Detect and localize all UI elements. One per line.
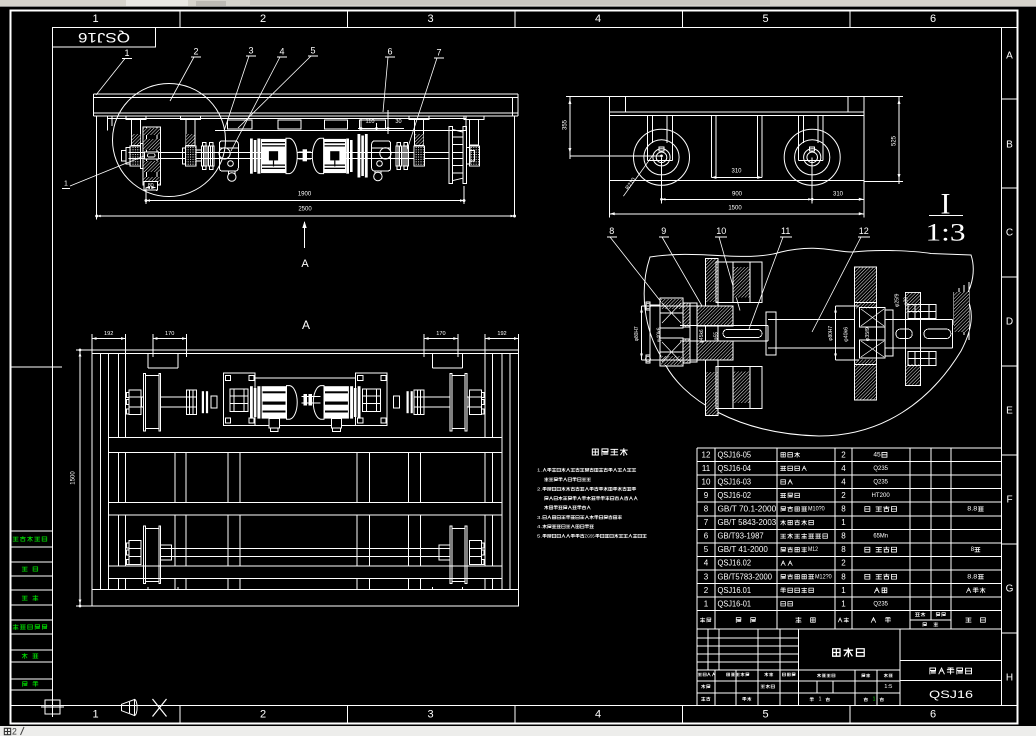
title block center part name [833, 648, 865, 656]
detail left end cap [650, 305, 660, 360]
plan view wheel slots bottom [147, 587, 149, 590]
detail gear disc [905, 292, 920, 385]
svg-text:4: 4 [595, 709, 601, 721]
svg-text:GB/T 41-2000: GB/T 41-2000 [718, 545, 769, 554]
svg-text:6: 6 [704, 532, 709, 541]
front view pedestal hanger 1 [126, 116, 146, 120]
front view second axlebox bearing [185, 146, 196, 166]
plan view brake bars right [407, 391, 409, 413]
svg-text:8.8: 8.8 [967, 573, 978, 580]
svg-text:8: 8 [841, 572, 846, 581]
svg-text:1:5: 1:5 [884, 684, 892, 690]
svg-text:12: 12 [702, 450, 711, 459]
detail right dim phi80H7 [835, 306, 837, 360]
svg-text:1.: 1. [537, 468, 542, 473]
front view platform right extension line [514, 116, 516, 216]
top window strip [0, 0, 1036, 7]
plan view dim 192 right [484, 334, 486, 354]
detail left shaft keyway [723, 330, 762, 338]
svg-text:φ40k6: φ40k6 [657, 327, 663, 342]
svg-text:45: 45 [873, 451, 881, 458]
svg-text:4: 4 [841, 464, 846, 473]
plan view cross band 3 [109, 565, 503, 567]
margin label miaotu [22, 567, 37, 571]
svg-text:1: 1 [841, 586, 846, 595]
end view left wheel yoke [647, 115, 649, 160]
front view left wheel keyway box [145, 152, 159, 159]
plan view coupling right [414, 390, 424, 414]
detail left rim bottom [716, 367, 762, 409]
plan view coupling left [186, 390, 196, 414]
svg-text:QSJ16.02: QSJ16.02 [718, 559, 752, 568]
detail left rim top [716, 262, 762, 303]
detail right dim phi35 [865, 327, 871, 341]
end view wheel radius leader [623, 155, 652, 196]
title block frame [696, 629, 698, 705]
end view right wheel yoke [797, 115, 799, 160]
svg-text:8: 8 [704, 505, 709, 514]
svg-text:1: 1 [841, 518, 846, 527]
svg-text:2: 2 [260, 709, 266, 721]
svg-text:φ80H7: φ80H7 [828, 326, 834, 341]
plan view dim 192 left [91, 334, 93, 350]
end view dim 525 [898, 97, 900, 185]
svg-text:GB/T5783-2000: GB/T5783-2000 [718, 572, 773, 581]
svg-text:3: 3 [427, 13, 433, 25]
svg-text:D: D [1006, 317, 1013, 328]
front view right axle end [466, 148, 470, 165]
front view motor 1 [261, 139, 286, 173]
plan view idler axle hubs [161, 545, 172, 560]
svg-text:4: 4 [595, 13, 601, 25]
plan view wheel rear-right [450, 526, 452, 583]
detail right shaft keyway 2 [924, 329, 951, 339]
detail left hub plates [697, 306, 733, 326]
svg-text:2.: 2. [537, 487, 542, 492]
plan view longitudinal members [117, 354, 119, 438]
svg-text:4: 4 [704, 559, 709, 568]
end view dim 1500 [609, 181, 611, 218]
svg-text:4: 4 [841, 477, 846, 486]
front view brake drum right [372, 141, 391, 171]
plan view axle bar front-left [161, 396, 187, 398]
margin label miaojiao [22, 596, 38, 601]
svg-text:3.: 3. [537, 515, 542, 520]
detail left hub extra blocks [683, 303, 690, 327]
svg-text:192: 192 [104, 331, 113, 337]
plan view brake bars left [202, 391, 204, 413]
detail left shaft [680, 325, 768, 327]
end view dim 310 center [711, 176, 716, 179]
end view side skirts [609, 115, 611, 180]
detail blob outline [644, 248, 973, 436]
svg-text:11: 11 [781, 226, 790, 236]
title block stage row [799, 669, 901, 671]
front view motor 2 [324, 139, 346, 173]
svg-text:2: 2 [260, 13, 266, 25]
svg-text:QSJ16-01: QSJ16-01 [718, 599, 752, 608]
detail left bearing [660, 298, 683, 328]
svg-text:7: 7 [436, 48, 441, 58]
svg-text:9: 9 [704, 491, 709, 500]
detail right bearing [860, 308, 885, 327]
svg-text:φ25f9: φ25f9 [895, 293, 901, 307]
front view coupling right [396, 146, 402, 166]
svg-text:2: 2 [704, 586, 709, 595]
plan view axle well top-right [432, 354, 434, 369]
svg-text:GB/T 70.1-2000: GB/T 70.1-2000 [718, 505, 777, 514]
detail right flange column [855, 267, 877, 400]
margin label qianzi [22, 654, 38, 659]
detail gear bolts top [908, 305, 936, 312]
svg-text:B: B [1006, 140, 1013, 151]
centering mark left-middle [11, 366, 63, 368]
svg-text:170: 170 [436, 331, 445, 337]
zone separators bottom [179, 706, 181, 724]
svg-text:QSJ16: QSJ16 [929, 689, 973, 701]
title block left grid [697, 637, 799, 639]
svg-text:8: 8 [841, 545, 846, 554]
end view right wheel [784, 129, 840, 185]
inner border left [52, 27, 54, 705]
svg-text:1500: 1500 [728, 206, 742, 212]
margin label riqi [23, 682, 38, 687]
inner border right [1001, 27, 1003, 705]
svg-text:9: 9 [661, 226, 666, 236]
svg-text:GB/T 5843-2003: GB/T 5843-2003 [718, 518, 777, 527]
svg-text:QSJ16-05: QSJ16-05 [718, 450, 752, 459]
front view brake release ring left [228, 173, 236, 181]
plan view idler axle [161, 548, 450, 550]
detail right shaft keyway 1 [896, 329, 912, 339]
svg-text:QSJ16-03: QSJ16-03 [718, 477, 752, 486]
front view pedestal hanger 3 [409, 116, 429, 120]
svg-text:QSJ16: QSJ16 [78, 30, 130, 45]
plan view wheel front-right [450, 374, 452, 431]
svg-text:Q235: Q235 [873, 465, 888, 472]
svg-text:4.: 4. [537, 524, 542, 529]
svg-text:8.8: 8.8 [967, 506, 978, 513]
plan view motor 2 [324, 386, 349, 418]
plan view bearing mount plate left [223, 373, 255, 425]
svg-text:2: 2 [841, 491, 846, 500]
detail shaft step flange [766, 312, 776, 355]
plan view top wall line [92, 353, 519, 355]
plan view cross band 2 [109, 501, 503, 503]
svg-text:4: 4 [279, 47, 284, 57]
svg-text:ZG55: ZG55 [585, 534, 595, 539]
title block sheet row [810, 698, 814, 701]
detail connecting shaft [768, 318, 855, 320]
front view dim 2500 [96, 116, 98, 220]
title block revision labels [698, 673, 706, 676]
front view axle shaft [129, 151, 449, 153]
svg-text:5: 5 [310, 46, 315, 56]
plan view outboard bearing rear-left [129, 540, 141, 564]
front view platform beam [94, 93, 519, 95]
end view dim 900 [661, 157, 663, 203]
end view beam [610, 96, 864, 98]
svg-text:5: 5 [762, 709, 768, 721]
svg-text:φ55: φ55 [714, 332, 720, 340]
svg-text:1: 1 [841, 599, 846, 608]
svg-text:φ45k6: φ45k6 [699, 329, 705, 343]
svg-text:12: 12 [859, 226, 869, 236]
front view right wheel [449, 127, 453, 184]
plan view wheel rear-left [144, 526, 146, 583]
plan view side wall lines [100, 354, 102, 590]
svg-text:QSJ16.01: QSJ16.01 [718, 586, 752, 595]
front view pedestal hanger 2 [180, 116, 200, 120]
svg-text:6: 6 [387, 47, 392, 57]
detail left assembly wheel web [706, 259, 719, 416]
svg-text:1: 1 [92, 13, 98, 25]
plan view motor 1 [262, 386, 287, 418]
svg-text:M12: M12 [808, 546, 818, 553]
title block product name [900, 660, 1002, 662]
front view brake disc stack right [346, 139, 349, 174]
svg-text:A: A [301, 258, 309, 270]
svg-text:192: 192 [497, 331, 506, 337]
detail left dim phi45k6 [699, 329, 705, 343]
zone letter separators right [1002, 98, 1018, 100]
plan view subframe rails [255, 377, 356, 379]
svg-text:11: 11 [702, 464, 711, 473]
svg-text:1900: 1900 [298, 192, 312, 198]
svg-text:355: 355 [563, 119, 569, 130]
plan view inter-motor shaft [302, 396, 321, 398]
plan view outboard bearing rear-right [469, 540, 481, 564]
margin label jieyongjian [13, 537, 47, 542]
svg-text:QSJ16-04: QSJ16-04 [718, 464, 752, 473]
svg-text:2: 2 [193, 47, 198, 57]
svg-text:GB/T93-1987: GB/T93-1987 [718, 532, 764, 541]
X mark [153, 699, 167, 717]
detail left dim phi40k6 [657, 327, 663, 342]
detail left dim phi80H7 [641, 306, 643, 360]
svg-text:2500: 2500 [298, 207, 312, 213]
front view pedestal hanger 4 [464, 116, 484, 120]
svg-text:QSJ16-02: QSJ16-02 [718, 491, 752, 500]
svg-text:8: 8 [609, 226, 614, 236]
plan view axle bar front-right [424, 396, 450, 398]
BOM header row [700, 618, 710, 622]
detail left dim phi55 [714, 332, 720, 340]
projection symbol cone [122, 700, 135, 716]
svg-text:2: 2 [12, 727, 17, 736]
svg-text:310: 310 [731, 169, 742, 175]
plan view outboard bearing front-right [469, 390, 481, 414]
margin label jiuditu [13, 625, 47, 630]
svg-text:1:3: 1:3 [926, 220, 966, 247]
svg-text:3: 3 [704, 572, 709, 581]
plan view cross band 1 [109, 437, 503, 439]
svg-text:3: 3 [248, 46, 253, 56]
plan view dim 170 right [423, 334, 425, 357]
svg-text:5.: 5. [537, 534, 542, 539]
svg-text:8: 8 [971, 546, 975, 553]
zone separators top [179, 11, 181, 28]
plan view outboard bearing front-left [129, 390, 141, 414]
plan view dim 1500 left [76, 349, 92, 351]
front view detail circle I [113, 84, 226, 197]
plan view axle well top-left [147, 354, 149, 369]
svg-text:525: 525 [892, 135, 898, 146]
svg-text:2: 2 [841, 450, 846, 459]
svg-text:HT200: HT200 [871, 492, 889, 499]
front view inter-motor shaft [298, 151, 311, 153]
end view left wheel [634, 129, 690, 185]
svg-text:G: G [1006, 584, 1014, 595]
front view right axlebox bearing 2 [470, 146, 480, 166]
end view dim 355 [569, 97, 571, 160]
front view dim 1900 [145, 188, 147, 204]
svg-text:5: 5 [704, 545, 709, 554]
detail gear bolts bottom [908, 352, 936, 359]
svg-text:8: 8 [841, 505, 846, 514]
front view brake release ring right [374, 172, 382, 180]
svg-text:8: 8 [841, 532, 846, 541]
front view brake drum left [219, 141, 238, 171]
svg-text:10: 10 [716, 226, 726, 236]
svg-text:3: 3 [427, 709, 433, 721]
plan view dim 170 left [152, 334, 154, 357]
svg-text:170: 170 [165, 331, 174, 337]
front view left axle end cap [122, 151, 127, 162]
inner border bottom [11, 705, 1018, 707]
svg-text:A: A [1006, 51, 1013, 62]
svg-text:7: 7 [704, 518, 709, 527]
svg-text:1500: 1500 [71, 471, 77, 485]
front view underframe rail [107, 118, 466, 120]
svg-text:10: 10 [702, 477, 711, 486]
svg-text:E: E [1006, 406, 1013, 417]
front view right axlebox bearing 1 [414, 146, 425, 166]
margin table lines [11, 530, 53, 532]
svg-text:1: 1 [124, 48, 129, 58]
front view wheel width dim 80 [144, 185, 146, 191]
title box QSJ16 rotated [53, 28, 156, 48]
plan view bottom wall line [92, 588, 519, 590]
plan view brake disc stack right [350, 386, 353, 418]
front view left axlebox bearing [130, 146, 140, 166]
bottom status strip [0, 726, 1036, 736]
svg-text:φ30: φ30 [904, 297, 910, 305]
svg-text:1: 1 [819, 697, 822, 703]
svg-text:H: H [1006, 673, 1013, 684]
BOM table grid [696, 448, 698, 629]
svg-text:φ80H7: φ80H7 [634, 326, 640, 341]
svg-text:M12?0: M12?0 [815, 573, 832, 580]
plan view brake disc stack left [250, 386, 253, 418]
svg-text:110: 110 [366, 119, 375, 125]
tech requirements title [592, 449, 627, 456]
svg-text:65Mn: 65Mn [873, 533, 888, 540]
svg-text:5: 5 [762, 13, 768, 25]
front view section arrow A [304, 222, 306, 248]
svg-text:6: 6 [930, 709, 936, 721]
front view dim 110 [360, 119, 362, 131]
svg-text:C: C [1006, 228, 1013, 239]
front view underframe stiffener boxes [228, 120, 253, 129]
end view center box [710, 115, 712, 177]
svg-text:1: 1 [64, 181, 68, 188]
svg-text:6: 6 [930, 13, 936, 25]
detail top small dims right [895, 293, 901, 307]
svg-text:Q235: Q235 [873, 600, 888, 607]
plan view bearing mount plate right [356, 373, 388, 425]
svg-text:φ40k6: φ40k6 [844, 327, 850, 342]
front view left wheel section [143, 127, 160, 185]
svg-text:F: F [1006, 495, 1012, 506]
front view brake disc stack left [250, 139, 253, 174]
title block signature labels [702, 685, 710, 689]
svg-text:A: A [302, 318, 310, 332]
svg-text:900: 900 [732, 192, 743, 198]
svg-text:φ35f9: φ35f9 [865, 327, 871, 341]
centering mark bottom-left [45, 700, 60, 714]
svg-text:310: 310 [833, 192, 844, 198]
svg-text:Q235: Q235 [873, 478, 888, 485]
inner border top [53, 27, 1018, 29]
detail right bearing nut [885, 310, 893, 356]
detail right dim phi40k6 [844, 327, 850, 342]
end view dim 310 right [863, 181, 865, 204]
svg-text:1: 1 [92, 709, 98, 721]
svg-text:M10?0: M10?0 [808, 506, 825, 513]
detail right edge steps [953, 292, 955, 325]
front view coupling flanges [201, 146, 207, 166]
plan view outer frame [92, 350, 519, 606]
svg-text:1: 1 [704, 599, 709, 608]
svg-text:30: 30 [395, 119, 401, 125]
plan view wheel front-left [144, 374, 146, 431]
svg-text:2: 2 [841, 559, 846, 568]
detail right shaft [893, 318, 953, 320]
svg-text:1: 1 [873, 697, 876, 703]
